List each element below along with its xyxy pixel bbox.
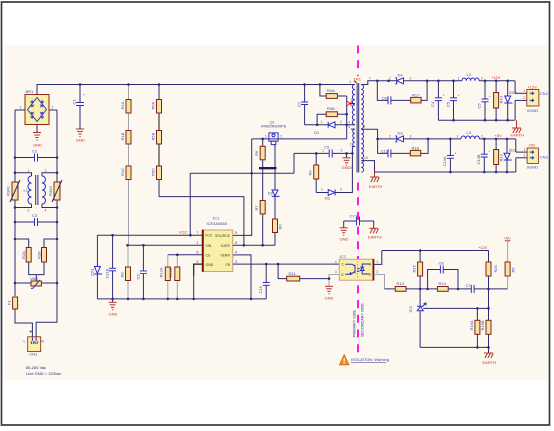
svg-text:R9: R9 (308, 170, 313, 176)
svg-text:3: 3 (235, 260, 237, 264)
svg-text:R18: R18 (412, 145, 420, 150)
svg-text:10: 10 (364, 156, 368, 160)
svg-text:2: 2 (197, 260, 199, 264)
svg-text:8: 8 (363, 125, 365, 129)
svg-text:L1: L1 (24, 188, 29, 193)
svg-text:2: 2 (481, 134, 483, 138)
svg-text:GND: GND (76, 138, 85, 143)
svg-text:L2: L2 (467, 72, 472, 77)
svg-text:L3: L3 (467, 130, 472, 135)
svg-text:5: 5 (351, 98, 353, 102)
svg-text:+5V: +5V (495, 133, 503, 138)
svg-text:CN1: CN1 (29, 352, 38, 357)
svg-text:+12V: +12V (478, 245, 488, 250)
svg-text:ICE3A0565: ICE3A0565 (207, 221, 228, 226)
svg-text:C9: C9 (135, 274, 140, 280)
svg-text:N: N (41, 339, 44, 343)
svg-text:R20: R20 (493, 264, 498, 272)
svg-text:2: 2 (350, 143, 352, 147)
svg-text:+: + (83, 93, 85, 97)
svg-text:GND: GND (33, 143, 42, 148)
svg-text:EARTH: EARTH (483, 360, 497, 365)
svg-text:4: 4 (348, 120, 350, 124)
svg-text:R6: R6 (254, 150, 259, 156)
svg-text:7: 7 (197, 231, 199, 235)
svg-text:C12: C12 (381, 148, 389, 153)
svg-text:BR1: BR1 (26, 89, 35, 94)
svg-text:D1: D1 (314, 130, 320, 135)
svg-text:+12V: +12V (527, 84, 537, 89)
svg-text:C7: C7 (297, 101, 302, 107)
svg-text:R5: R5 (511, 267, 516, 273)
svg-text:GND: GND (109, 312, 118, 317)
svg-text:VIN: VIN (206, 244, 212, 248)
svg-text:C8: C8 (439, 260, 445, 265)
svg-text:R5C: R5C (151, 168, 156, 176)
svg-text:D2: D2 (268, 191, 274, 196)
svg-text:GND: GND (340, 237, 349, 242)
svg-text:4: 4 (235, 250, 237, 254)
svg-text:IC2: IC2 (340, 254, 347, 259)
svg-text:EARTH: EARTH (369, 184, 383, 189)
svg-text:D4: D4 (398, 72, 404, 77)
svg-text:PRIMARY SIDE: PRIMARY SIDE (353, 309, 357, 337)
svg-text:Line GND = 120Vac: Line GND = 120Vac (26, 371, 61, 376)
svg-text:R4A: R4A (327, 88, 335, 93)
svg-text:C2: C2 (32, 149, 38, 154)
svg-text:R2A: R2A (21, 251, 26, 259)
svg-text:IC1: IC1 (213, 216, 220, 221)
svg-text:1: 1 (321, 188, 323, 192)
svg-text:C1: C1 (72, 99, 77, 105)
svg-text:R1C: R1C (120, 168, 125, 176)
svg-text:ZD2: ZD2 (509, 90, 517, 95)
svg-text:C11B: C11B (105, 268, 110, 278)
svg-text:C5: C5 (324, 145, 330, 150)
svg-text:R17: R17 (412, 92, 420, 97)
svg-text:R16A: R16A (469, 320, 474, 330)
svg-text:D2: D2 (325, 196, 331, 201)
svg-text:R4B: R4B (327, 106, 335, 111)
svg-text:3: 3 (335, 270, 337, 274)
svg-text:EARTH: EARTH (511, 132, 525, 137)
svg-text:C7: C7 (466, 283, 472, 288)
svg-text:1: 1 (457, 134, 459, 138)
svg-text:1: 1 (458, 76, 460, 80)
svg-text:VERR: VERR (220, 253, 230, 257)
svg-text:2: 2 (481, 76, 483, 80)
svg-text:L: L (24, 339, 26, 343)
svg-text:SECONDARY SIDE: SECONDARY SIDE (361, 303, 365, 337)
svg-text:SGND: SGND (527, 165, 539, 170)
svg-text:C13B: C13B (476, 154, 481, 164)
svg-text:3: 3 (45, 169, 47, 173)
svg-text:GND1: GND1 (342, 165, 354, 170)
svg-text:D3: D3 (398, 130, 404, 135)
svg-text:R16B: R16B (480, 320, 485, 330)
svg-text:ISOLATION: Warning: ISOLATION: Warning (351, 357, 389, 362)
svg-text:3: 3 (410, 134, 412, 138)
svg-text:R1B: R1B (120, 132, 125, 140)
svg-text:VCC: VCC (179, 230, 188, 235)
svg-text:2: 2 (52, 106, 54, 110)
svg-text:R11: R11 (289, 271, 297, 276)
svg-text:R8: R8 (120, 272, 125, 278)
svg-text:GATE: GATE (221, 244, 231, 248)
svg-text:1: 1 (349, 80, 351, 84)
svg-text:1: 1 (197, 241, 199, 245)
svg-text:C6: C6 (477, 103, 482, 109)
svg-text:SOURCE: SOURCE (215, 234, 231, 238)
svg-text:1: 1 (265, 134, 267, 138)
svg-text:R7: R7 (254, 205, 259, 211)
svg-text:R3A2: R3A2 (48, 185, 53, 196)
svg-text:EARTH: EARTH (368, 235, 382, 240)
svg-text:R14: R14 (439, 281, 447, 286)
svg-text:+: + (489, 95, 491, 99)
svg-text:VGND: VGND (527, 108, 539, 113)
svg-text:CN3: CN3 (540, 155, 549, 160)
svg-text:FB: FB (226, 263, 231, 267)
svg-text:ZD1: ZD1 (90, 268, 95, 276)
svg-text:+12V: +12V (491, 75, 501, 80)
svg-text:VCC: VCC (205, 234, 213, 238)
svg-text:R15: R15 (412, 264, 417, 272)
svg-text:C3: C3 (32, 213, 38, 218)
svg-text:6: 6 (235, 241, 237, 245)
svg-text:4: 4 (335, 260, 337, 264)
svg-text:VAR: VAR (30, 276, 38, 281)
svg-text:3: 3 (348, 125, 350, 129)
svg-text:R3A1: R3A1 (6, 185, 11, 196)
svg-text:6: 6 (197, 250, 199, 254)
svg-text:1: 1 (523, 89, 525, 93)
svg-text:IC3: IC3 (408, 306, 413, 313)
svg-text:4: 4 (45, 209, 47, 213)
svg-text:GND: GND (206, 263, 214, 267)
svg-text:R12: R12 (499, 153, 504, 161)
svg-text:1: 1 (321, 120, 323, 124)
svg-text:C8: C8 (382, 95, 388, 100)
svg-text:R12A: R12A (159, 267, 164, 277)
svg-text:R1A: R1A (120, 101, 125, 109)
svg-text:2: 2 (524, 154, 526, 158)
svg-text:+: + (443, 94, 445, 98)
svg-text:+5V: +5V (528, 143, 536, 148)
svg-text:R5A: R5A (151, 101, 156, 109)
svg-text:+: + (455, 151, 457, 155)
svg-text:R12B: R12B (168, 267, 173, 277)
svg-text:+: + (488, 150, 490, 154)
svg-text:1: 1 (376, 260, 378, 264)
svg-text:C4: C4 (430, 101, 435, 107)
svg-text:+: + (458, 94, 460, 98)
svg-text:2: 2 (389, 134, 391, 138)
svg-text:2: 2 (523, 96, 525, 100)
svg-text:C15: C15 (258, 285, 263, 293)
svg-text:F1: F1 (7, 300, 12, 305)
svg-text:R2B: R2B (36, 251, 41, 259)
svg-text:+5V: +5V (504, 235, 512, 240)
svg-text:85-265 Vac: 85-265 Vac (26, 365, 46, 370)
svg-text:1: 1 (426, 302, 428, 306)
svg-text:R3: R3 (278, 224, 283, 230)
svg-text:R10: R10 (499, 95, 504, 103)
svg-text:2: 2 (280, 134, 282, 138)
svg-text:1: 1 (389, 76, 391, 80)
svg-text:1: 1 (20, 106, 22, 110)
svg-text:IPA60R600P6: IPA60R600P6 (261, 124, 287, 129)
svg-text:CN2: CN2 (540, 91, 549, 96)
svg-text:2: 2 (341, 149, 343, 153)
svg-text:GND: GND (325, 296, 334, 301)
svg-text:5: 5 (235, 231, 237, 235)
svg-text:R13: R13 (397, 281, 405, 286)
svg-text:2: 2 (376, 270, 378, 274)
svg-text:1: 1 (524, 148, 526, 152)
svg-text:2: 2 (410, 76, 412, 80)
svg-text:R5B: R5B (151, 132, 156, 140)
svg-text:7: 7 (369, 77, 371, 81)
svg-text:2: 2 (340, 120, 342, 124)
svg-text:1: 1 (28, 169, 30, 173)
svg-text:C5: C5 (445, 101, 450, 107)
svg-text:CS: CS (206, 253, 212, 257)
svg-text:C13A: C13A (442, 156, 447, 166)
svg-text:2: 2 (28, 209, 30, 213)
svg-text:2: 2 (340, 188, 342, 192)
